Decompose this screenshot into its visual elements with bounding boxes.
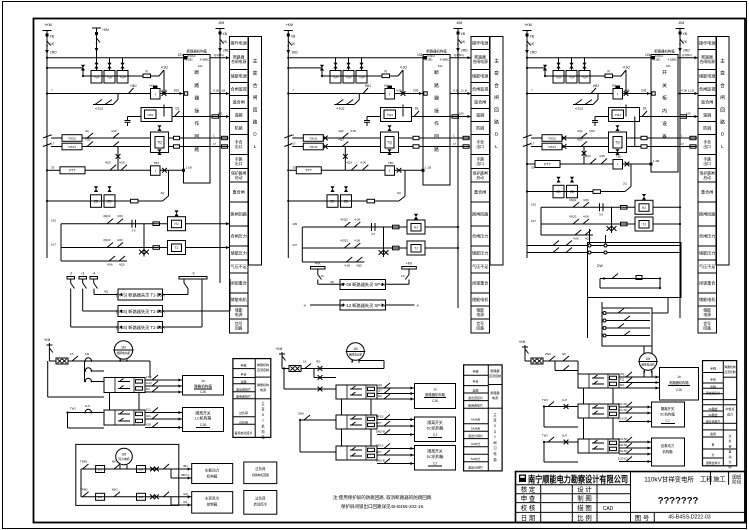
svg-text:I: I: [389, 93, 390, 97]
G1 trip wires to coil box: [82, 137, 151, 139]
G2 terminal-strip description box: [490, 37, 503, 266]
svg-text:4SQ3: 4SQ3: [569, 215, 577, 219]
G3 row1 resistor: [621, 206, 628, 210]
svg-text:4B07-1: 4B07-1: [181, 473, 190, 477]
svg-text:出口: 出口: [476, 144, 484, 149]
G2 trip relay box: [385, 166, 395, 176]
G3 TWJ relay box: [612, 110, 624, 119]
svg-text:电源: 电源: [235, 312, 243, 317]
svg-text:手合: 手合: [703, 140, 711, 145]
svg-text:4AM分: 4AM分: [471, 441, 480, 446]
G2 top bus wire to mechanism box: [288, 57, 423, 59]
BL overload shed box: [244, 462, 277, 484]
svg-text:退出连接片: 退出连接片: [236, 387, 251, 392]
svg-text:施工: 施工: [713, 476, 725, 484]
svg-text:4.3Q: 4.3Q: [161, 66, 168, 70]
G2 feed knife switch: [288, 41, 292, 46]
G3 closing coil boxes 52C: [553, 71, 564, 84]
BL overload fan-start box: [244, 491, 277, 515]
svg-text:日 期: 日 期: [521, 514, 536, 522]
BM1 interface row at y=385: [350, 388, 356, 390]
svg-text:过负荷: 过负荷: [239, 410, 248, 415]
svg-text:1:LB: 1:LB: [461, 89, 467, 93]
svg-text:4.3Q: 4.3Q: [623, 66, 630, 70]
svg-text:手合: 手合: [472, 379, 478, 384]
BL terminal function table: [233, 359, 271, 438]
svg-text:防跳: 防跳: [703, 125, 711, 131]
svg-text:33: 33: [292, 165, 296, 169]
svg-text:1HQ: 1HQ: [146, 381, 153, 385]
svg-text:3 6: 3 6: [599, 212, 603, 216]
G1 manual close contact row: [93, 104, 113, 106]
svg-text:备: 备: [712, 442, 715, 447]
svg-text:45-B4SS-D222-03: 45-B4SS-D222-03: [668, 515, 711, 521]
svg-text:断路器机构箱: 断路器机构箱: [669, 380, 689, 385]
svg-text:4:06: 4:06: [354, 239, 360, 243]
svg-text:TWJ2: TWJ2: [309, 136, 317, 140]
G1 feed connector XB: [46, 34, 49, 37]
svg-text:TWJ: TWJ: [387, 113, 394, 117]
svg-text:2LP: 2LP: [562, 434, 567, 438]
svg-text:机构箱: 机构箱: [662, 449, 673, 454]
svg-text:遥跳: 遥跳: [476, 112, 484, 118]
G2 row1 capacitor: [371, 223, 373, 231]
svg-text:闭锁重合: 闭锁重合: [699, 280, 715, 286]
svg-text:QP7: QP7: [376, 450, 382, 454]
svg-text:TBJ: TBJ: [388, 161, 394, 165]
svg-text:107: 107: [292, 243, 297, 247]
BL enclosure row A exit: [171, 468, 192, 470]
BL isolator mechanism box: [183, 408, 224, 432]
BR isolator box: [652, 402, 685, 427]
G1 closing relay KO: [151, 89, 161, 100]
svg-text:-KM: -KM: [678, 21, 685, 25]
G2 trip row resistors: [413, 136, 419, 139]
svg-text:17: 17: [531, 142, 535, 146]
svg-text:储能电源: 储能电源: [472, 73, 488, 79]
svg-text:4:06: 4:06: [589, 129, 595, 133]
svg-text:隔离开关: 隔离开关: [427, 420, 442, 425]
G1 negative vertical wire: [219, 59, 221, 283]
G1 left rail wire: [46, 68, 48, 258]
G2 TWJ row wire: [367, 116, 381, 118]
svg-text:-K: -K: [416, 304, 419, 308]
BR motor legs: [643, 371, 645, 378]
svg-text:注:使用保护屏的防跳回路, 取消断路器的防跳回路.: 注:使用保护屏的防跳回路, 取消断路器的防跳回路.: [333, 494, 433, 501]
svg-text:+KM: +KM: [524, 23, 532, 27]
svg-text:QH: QH: [378, 383, 382, 387]
svg-text:退分合闸片: 退分合闸片: [706, 419, 721, 424]
svg-text:M2: M2: [378, 394, 382, 398]
G3 row1 capacitor: [599, 203, 601, 211]
svg-text:4:06: 4:06: [119, 160, 125, 164]
svg-text:+KM: +KM: [276, 347, 283, 351]
G3 aux contact row: [541, 234, 593, 236]
G1 mechanism box outline: [184, 55, 211, 184]
svg-text:5C机构箱: 5C机构箱: [660, 412, 675, 417]
G2 series resistor R1: [367, 75, 382, 77]
svg-text:CJ6: CJ6: [200, 423, 206, 427]
svg-text:制 图: 制 图: [577, 494, 592, 503]
G3 wire drop to close-command row: [625, 76, 627, 93]
G2 terminal-strip box column: [471, 37, 490, 50]
svg-text:退出分闸片: 退出分闸片: [468, 465, 483, 470]
svg-text:17: 17: [292, 142, 296, 146]
G1 trip row resistors: [174, 136, 180, 139]
svg-text:3 6: 3 6: [131, 229, 135, 233]
svg-text:风冷电机: 风冷电机: [118, 457, 129, 461]
svg-text:105: 105: [292, 222, 297, 226]
G1 top bus wire to mechanism box: [47, 57, 184, 59]
G3 terminal-strip description box: [716, 37, 729, 266]
svg-text:遥跳: 遥跳: [235, 112, 243, 118]
G2 aux contact row: [302, 261, 364, 263]
G2 negative vertical wire: [457, 59, 459, 308]
BR3 interface box outline: [578, 439, 619, 453]
svg-text:Q1(R1): Q1(R1): [214, 53, 224, 57]
svg-text:33: 33: [531, 165, 535, 169]
svg-text:电源: 电源: [260, 387, 266, 392]
svg-text:4:1BBC: 4:1BBC: [200, 58, 209, 62]
svg-text:信号: 信号: [703, 321, 711, 326]
svg-text:-9: -9: [192, 272, 195, 276]
BM isolator box 1: [415, 417, 456, 442]
BM arrows row2: [377, 419, 415, 421]
G3 interface top feed verticals: [589, 229, 591, 244]
G3 aux contact sub box: [602, 308, 652, 346]
G3 trip row aux contacts: [581, 133, 587, 138]
svg-text:L5D: L5D: [146, 423, 151, 427]
svg-text:储能: 储能: [703, 308, 711, 313]
svg-text:分: 分: [712, 452, 715, 457]
svg-text:1:1B: 1:1B: [186, 165, 192, 169]
G2 manual close contact row: [334, 104, 354, 106]
BM breaker mech target box: [415, 384, 456, 409]
svg-text:手合: 手合: [235, 140, 243, 145]
G2 trip link to protection row: [344, 147, 346, 171]
G2 trip coil row upper: [303, 135, 323, 142]
svg-text:控制箱: 控制箱: [207, 502, 218, 507]
BL fuse: [49, 360, 56, 362]
G3 TWJ drop capacitor: [594, 117, 596, 121]
G3 close command wire: [527, 93, 613, 95]
svg-text:5AM合: 5AM合: [471, 426, 480, 431]
svg-text:电源: 电源: [492, 395, 498, 400]
svg-text:机构箱: 机构箱: [207, 474, 218, 479]
G2 vertical link left: [301, 227, 303, 262]
G1 row2 resistor: [153, 246, 160, 250]
BL1 interface box outline: [104, 378, 145, 393]
BM row2 left feed: [299, 419, 301, 421]
svg-text:+KM: +KM: [44, 23, 52, 27]
G1 TWJ relay box: [145, 110, 157, 119]
svg-text:4:1B: 4:1B: [453, 89, 459, 93]
svg-text:手跳: 手跳: [472, 369, 478, 374]
svg-text:合闸监视: 合闸监视: [472, 86, 488, 92]
svg-text:1:1BC: 1:1BC: [653, 58, 661, 62]
svg-text:1LP: 1LP: [562, 398, 567, 402]
svg-text:1CD-5D: 1CD-5D: [618, 443, 627, 447]
svg-text:DC机构箱: DC机构箱: [427, 426, 444, 431]
svg-text:弹簧机构: 弹簧机构: [257, 362, 269, 367]
G3 secondary row link up: [601, 191, 626, 193]
svg-text:DL: DL: [176, 107, 180, 111]
svg-text:I: I: [155, 169, 156, 173]
BM arrows row1: [377, 387, 415, 389]
svg-text:ZD: ZD: [107, 199, 112, 203]
G3 TWJ row wire: [595, 116, 609, 118]
G1 series resistor R1: [128, 75, 143, 77]
svg-text:4:08: 4:08: [396, 89, 402, 93]
G3 interface left wires: [527, 245, 588, 247]
svg-text:4:06: 4:06: [583, 198, 589, 202]
G2 wire drop to close-command row: [402, 76, 404, 93]
svg-text:直流控制: 直流控制: [489, 373, 501, 378]
svg-text:切除电机回路: 切除电机回路: [252, 472, 269, 477]
G3 trip wires to coil box: [562, 137, 609, 139]
svg-text:MK2: MK2: [112, 487, 118, 491]
svg-text:TWJ: TWJ: [542, 434, 548, 438]
G2 trip row aux contacts: [342, 133, 348, 138]
svg-text:储能电机: 储能电机: [231, 296, 247, 302]
svg-text:1LP: 1LP: [85, 404, 90, 408]
G2 signal relay row 2: [407, 241, 425, 255]
svg-text:信号: 信号: [235, 321, 243, 326]
svg-text:手合: 手合: [240, 372, 246, 377]
svg-text:2(3)K2: 2(3)K2: [187, 54, 196, 58]
svg-text:重合闸: 重合闸: [701, 189, 713, 195]
svg-text:储能压力: 储能压力: [699, 250, 715, 256]
G1 mid vertical link: [163, 105, 165, 117]
G3 left rail wire: [526, 68, 528, 258]
G2 close command wire: [288, 93, 385, 95]
svg-text:储能电源: 储能电源: [699, 73, 715, 79]
svg-text:阶段: 阶段: [732, 479, 742, 486]
svg-text:17: 17: [453, 142, 457, 146]
svg-text:105: 105: [51, 219, 56, 223]
G3 feed fuse: [525, 50, 529, 54]
svg-text:TQ: TQ: [615, 141, 620, 145]
BR arrows row1: [619, 376, 660, 378]
G2 row1 resistor: [393, 225, 400, 229]
BL contact column: [85, 368, 91, 371]
svg-text:1:LB: 1:LB: [688, 89, 694, 93]
G3 negative vertical wire: [679, 59, 681, 318]
svg-text:1RD: 1RD: [50, 51, 57, 55]
svg-text:1TQ: 1TQ: [146, 375, 152, 379]
svg-text:1n: 1n: [201, 379, 205, 383]
svg-text:DP1S: DP1S: [376, 444, 383, 448]
G3 trip coil TQ: [609, 132, 627, 153]
svg-text:过负荷: 过负荷: [255, 466, 266, 471]
BL1 interface row at y=377.5: [118, 381, 124, 383]
G2 feed fuse: [287, 50, 291, 54]
BL enclosure row A exit 2: [171, 477, 192, 479]
svg-text:LC机构箱: LC机构箱: [195, 416, 211, 421]
svg-text:南宁顺能电力勘察设计有限公司: 南宁顺能电力勘察设计有限公司: [528, 473, 628, 484]
BL enclosure row A: [81, 468, 171, 470]
svg-text:操作电源: 操作电源: [699, 40, 715, 46]
G3 trip coil row upper: [542, 135, 562, 142]
svg-text:断路器: 断路器: [490, 390, 499, 395]
svg-text:储能电机: 储能电机: [699, 296, 715, 302]
svg-text:手跳: 手跳: [703, 157, 711, 162]
G1 feed fuse: [45, 50, 49, 54]
svg-text:RJ: RJ: [98, 495, 102, 499]
svg-text:4A跳合: 4A跳合: [708, 406, 717, 411]
svg-text:启动: 启动: [476, 175, 484, 180]
svg-text:2WK: 2WK: [298, 412, 304, 416]
svg-text:DM2-B: DM2-B: [376, 459, 385, 463]
G3 signal relay row 2: [635, 217, 653, 231]
svg-text:备用启动连片: 备用启动连片: [234, 430, 252, 435]
G1 second bus segment: [47, 67, 83, 69]
G1 wire drop to close-command row: [163, 76, 165, 93]
svg-text:QK: QK: [562, 352, 566, 356]
BM wire up to motor: [330, 368, 384, 370]
G2 mechanism box outline: [423, 55, 450, 186]
BR breaker mech target box: [660, 368, 699, 401]
svg-text:PTT: PTT: [306, 169, 312, 173]
svg-text:4:1BBC: 4:1BBC: [668, 58, 677, 62]
svg-text:过负荷: 过负荷: [255, 496, 266, 501]
svg-text:TWJ3: TWJ3: [309, 145, 317, 149]
BL fan-control enclosure: [76, 444, 179, 505]
svg-text:QP7: QP7: [376, 421, 382, 425]
BM2 interface row at y=415: [350, 418, 356, 420]
svg-text:合闸电源: 合闸电源: [231, 59, 246, 64]
G2 trip coil TQ: [381, 132, 399, 153]
G1 row1 capacitor: [131, 220, 133, 228]
svg-text:HJ: HJ: [175, 222, 179, 226]
svg-text:I: I: [389, 169, 390, 173]
svg-text:17: 17: [213, 142, 217, 146]
BM contact column: [318, 375, 323, 380]
svg-text:备用连接片: 备用连接片: [468, 403, 483, 408]
svg-text:电源: 电源: [476, 312, 484, 317]
BR interface link2: [583, 418, 585, 439]
svg-text:DM2-B: DM2-B: [376, 430, 385, 434]
svg-text:储能电源: 储能电源: [231, 73, 247, 79]
svg-text:110kV甘祥变电所: 110kV甘祥变电所: [644, 475, 694, 484]
title row lines: [516, 493, 631, 495]
svg-text:TBJ: TBJ: [616, 155, 622, 159]
svg-text:17: 17: [51, 142, 55, 146]
svg-text:备用: 备用: [710, 431, 716, 436]
svg-text:防跳: 防跳: [235, 125, 243, 131]
svg-text:4:06: 4:06: [360, 160, 366, 164]
G3 secondary supply rail: [527, 191, 593, 193]
svg-text:???????: ???????: [658, 496, 699, 507]
svg-text:-KM: -KM: [218, 21, 225, 25]
svg-text:操作电源: 操作电源: [231, 40, 247, 46]
BL wire up to motor: [149, 361, 151, 378]
BR vehicle box: [652, 438, 685, 466]
svg-text:4CL: 4CL: [146, 414, 152, 418]
svg-text:4:06: 4:06: [573, 237, 579, 241]
svg-text:1n: 1n: [677, 375, 681, 379]
G1 terminal bar -9: [179, 277, 207, 280]
svg-text:105: 105: [459, 112, 464, 116]
svg-text:储能压力: 储能压力: [472, 250, 488, 256]
G2 secondary diode boxes: [327, 195, 338, 208]
BR2 interface row at y=404: [592, 407, 598, 409]
svg-text:101: 101: [178, 53, 184, 57]
G3 anti-pump relay row rail: [545, 75, 553, 77]
svg-text:启动风冷: 启动风冷: [254, 502, 268, 507]
svg-text:RJ: RJ: [98, 467, 102, 471]
svg-text:+KK: +KK: [314, 262, 321, 266]
svg-text:4:06: 4:06: [344, 264, 350, 268]
G3 wire mech box to terminal strip r1: [678, 57, 698, 59]
svg-text:4:1B: 4:1B: [213, 89, 219, 93]
svg-text:防跳: 防跳: [476, 125, 484, 131]
svg-text:ZD: ZD: [570, 190, 575, 194]
svg-text:回路: 回路: [703, 326, 711, 331]
svg-text:ZD: ZD: [556, 190, 561, 194]
svg-text:Q1(R1): Q1(R1): [454, 53, 464, 57]
G2 secondary supply rail: [288, 200, 367, 202]
svg-text:3 6: 3 6: [371, 232, 375, 236]
title block company row: [516, 484, 631, 486]
svg-text:启动: 启动: [235, 175, 243, 180]
svg-text:4AM合: 4AM合: [471, 417, 480, 422]
G2 wire mech box to terminal strip r3: [450, 93, 471, 95]
G1 breaker-failure relay box 3: [118, 322, 163, 333]
BM interface link wires: [341, 399, 343, 415]
svg-text:1M: 1M: [121, 345, 126, 349]
G1 aux contact row: [61, 260, 127, 262]
svg-text:核 定: 核 定: [521, 485, 536, 494]
svg-text:隔离开关: 隔离开关: [427, 449, 442, 454]
svg-text:车载动力: 车载动力: [205, 468, 220, 473]
svg-text:-KM: -KM: [456, 21, 463, 25]
svg-text:遥跳: 遥跳: [240, 379, 246, 384]
svg-text:TJ: TJ: [175, 246, 179, 250]
svg-text:CJ6: CJ6: [676, 388, 682, 392]
svg-text:1CD-5D: 1CD-5D: [618, 437, 627, 441]
G2 TWJ relay box: [384, 110, 396, 119]
svg-text:退出连接片: 退出连接片: [468, 395, 483, 400]
svg-text:储能电动机: 储能电动机: [117, 351, 131, 355]
title block outline: [516, 472, 746, 523]
G1 trip link to protection row: [117, 147, 119, 171]
svg-text:CAD: CAD: [603, 506, 614, 512]
svg-text:1M: 1M: [353, 347, 358, 351]
G1 close command wire: [47, 93, 151, 95]
svg-text:断路器机构箱: 断路器机构箱: [425, 392, 445, 397]
svg-text:1K: 1K: [303, 360, 307, 364]
G3 manual close contact row: [573, 104, 593, 106]
svg-text:设 计: 设 计: [577, 485, 592, 494]
svg-text:比 例: 比 例: [577, 513, 592, 522]
BM3 interface box outline: [336, 446, 377, 460]
svg-text:合闸监视: 合闸监视: [231, 86, 247, 92]
svg-text:4SQ2: 4SQ2: [340, 218, 348, 222]
svg-text:2RD: 2RD: [461, 49, 468, 53]
BR wire to box1: [577, 361, 579, 374]
BL interface link wires: [109, 393, 111, 411]
svg-text:4Q: 4Q: [330, 280, 335, 284]
svg-text:闭锁重合: 闭锁重合: [231, 280, 247, 286]
G1 secondary supply rail: [47, 200, 131, 202]
G1 anti-pump relay row rail: [83, 75, 91, 77]
svg-text:Q1(R1): Q1(R1): [682, 53, 692, 57]
G3 closing relay KO: [613, 89, 623, 100]
svg-text:TQ: TQ: [387, 141, 392, 145]
svg-text:SP-08 断路器失灵 SP-1x: SP-08 断路器失灵 SP-1x: [340, 281, 387, 288]
svg-text:1RD: 1RD: [530, 51, 537, 55]
